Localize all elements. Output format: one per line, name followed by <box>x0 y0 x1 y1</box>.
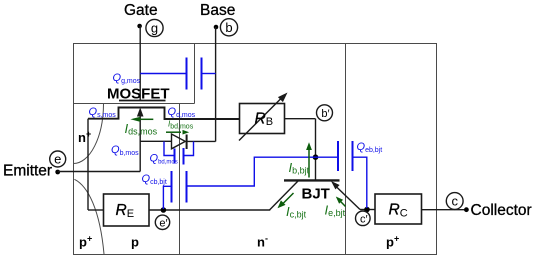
svg-text:c: c <box>451 194 458 209</box>
svg-text:Base: Base <box>200 2 235 19</box>
svg-text:g: g <box>151 21 158 36</box>
svg-text:b: b <box>225 20 232 35</box>
svg-text:e′: e′ <box>159 217 167 229</box>
svg-text:c′: c′ <box>360 213 368 225</box>
svg-text:e: e <box>54 152 61 167</box>
svg-text:Collector: Collector <box>471 202 532 219</box>
svg-text:BJT: BJT <box>302 185 330 202</box>
svg-text:MOSFET: MOSFET <box>107 86 170 103</box>
svg-text:Emitter: Emitter <box>3 163 52 180</box>
svg-text:Gate: Gate <box>124 2 158 19</box>
svg-text:p: p <box>131 235 139 250</box>
svg-text:b′: b′ <box>321 108 329 120</box>
